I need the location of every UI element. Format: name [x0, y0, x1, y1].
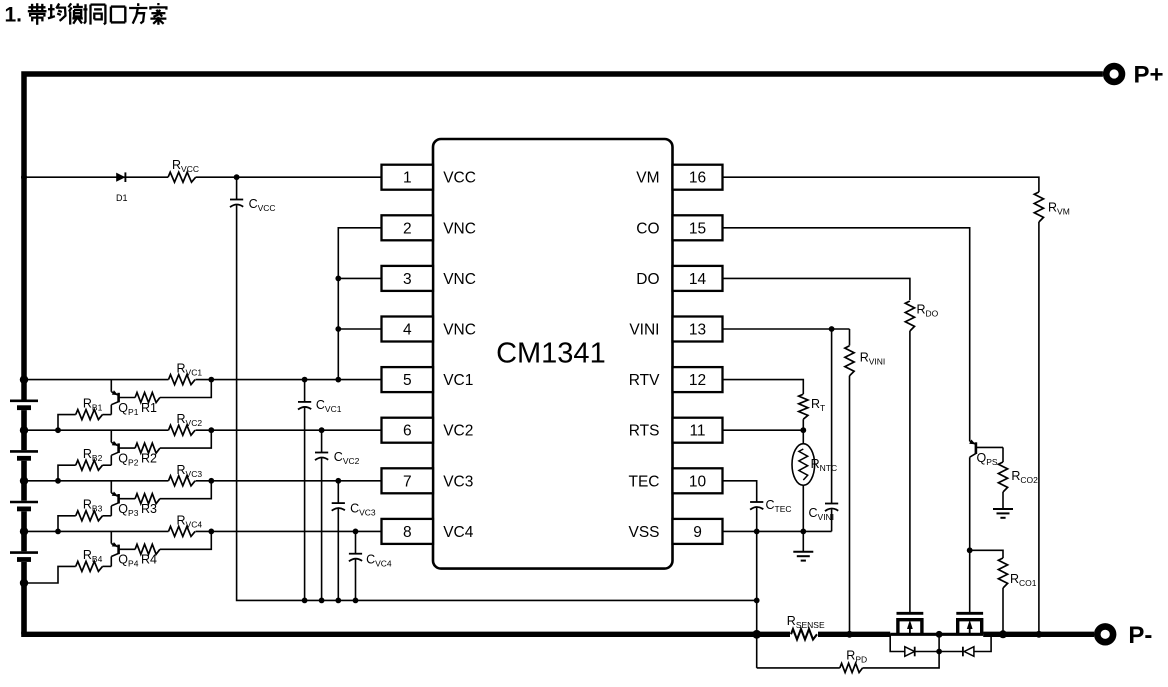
transistor Q1 discharge MOSFET: [897, 613, 924, 634]
label P+: [1134, 62, 1164, 89]
pin 7 box: [382, 468, 434, 493]
node RB2 tap junction: [55, 478, 61, 484]
wire pin 3 stub: [338, 277, 381, 279]
svg-text:7: 7: [403, 473, 412, 490]
pin 14 box: [673, 266, 723, 291]
wire battery rail segment below cell B1: [21, 410, 27, 450]
node CVC1 tap: [302, 377, 308, 383]
pin number 11: [689, 423, 705, 440]
transistor QP4: [111, 531, 135, 566]
resistor RPD: [840, 663, 863, 672]
wire CVC4 to ground bus: [355, 559, 357, 600]
pin number 2: [403, 220, 412, 237]
wire VSS down through bus to RPD: [756, 531, 758, 668]
wire RB1 to cell tap 2: [58, 415, 76, 431]
label RVC4: [177, 513, 203, 529]
wire pin9 VSS: [723, 530, 832, 532]
capacitor CVC1: [298, 402, 311, 410]
pin name VC4 (pin 8): [443, 524, 474, 541]
pin name VNC (pin 2): [443, 220, 476, 237]
pin 15 box: [673, 215, 723, 240]
pin number 9: [693, 524, 702, 541]
wire CVC4 top lead: [355, 531, 357, 553]
svg-text:P+: P+: [1134, 62, 1164, 89]
wire CVINI top lead: [831, 329, 833, 504]
wire RNTC top lead: [802, 430, 804, 444]
wire pin16 VM to RVM: [723, 177, 1039, 192]
ground under RNTC: [793, 552, 813, 561]
svg-text:12: 12: [689, 372, 706, 389]
transistor QP3: [111, 481, 135, 516]
resistor RVM: [1034, 192, 1043, 222]
wire CVC1 to ground bus: [304, 408, 306, 601]
node RNTC VSS junction: [800, 529, 806, 535]
label CVINI: [809, 506, 835, 522]
wire pin14 DO to RDO: [723, 278, 910, 300]
wire pin13 VINI: [723, 328, 850, 330]
wire QPS collector down to gate: [969, 457, 971, 613]
label RNTC: [811, 457, 838, 473]
resistor R2: [135, 443, 160, 453]
wire RVINI to P- rail: [849, 376, 851, 635]
svg-text:R4: R4: [141, 553, 157, 567]
svg-text:R3: R3: [141, 502, 157, 516]
svg-text:VCC: VCC: [443, 170, 476, 187]
transistor QPS: [969, 440, 1003, 458]
wire RT to RTS junction: [802, 419, 804, 430]
label RB1: [83, 396, 103, 412]
node RT RTS RNTC junction: [800, 427, 806, 433]
wire diode loop right rise: [974, 634, 991, 651]
pin number 10: [689, 473, 707, 490]
svg-text:15: 15: [689, 220, 706, 237]
wire cell tap 4 to pin 8: [24, 530, 382, 532]
svg-text:P-: P-: [1128, 622, 1152, 649]
battery cell B1 plates: [10, 401, 38, 408]
svg-text:VNC: VNC: [443, 322, 476, 339]
svg-text:6: 6: [403, 423, 412, 440]
resistor RT: [799, 394, 808, 419]
wire CVCC to ground bus: [237, 205, 757, 600]
capacitor CVC3: [332, 503, 345, 511]
pin 13 box: [673, 317, 723, 342]
op-amp U1 IC body CM1341: [433, 139, 673, 569]
node CVC2 tap: [319, 427, 325, 433]
wire diode loop left drop: [890, 634, 905, 651]
label RSENSE: [787, 614, 825, 630]
wire QP1 collector to RB1: [103, 414, 112, 416]
node RVC4 output junction: [208, 529, 214, 535]
node CVC1 bus junction: [302, 598, 308, 604]
node RCO1 rail junction: [999, 630, 1007, 638]
node CVC2 bus junction: [319, 598, 325, 604]
label RB4: [83, 548, 103, 564]
node battery tap 3: [20, 477, 28, 485]
capacitor CVINI: [825, 504, 838, 512]
wire RCO1 branch: [970, 550, 1003, 558]
svg-text:VC1: VC1: [443, 372, 473, 389]
wire cell tap 3 to pin 7: [24, 480, 382, 482]
wire pin12 RTV to RT: [723, 380, 804, 394]
pin number 13: [689, 322, 706, 339]
label CVC1: [316, 398, 342, 414]
label QP1: [118, 401, 138, 417]
wire RB3 to cell tap 4: [58, 516, 76, 532]
label R2: [141, 451, 157, 465]
resistor RVCC: [168, 171, 196, 183]
wire VNC pins 2-4 tie line: [338, 228, 381, 380]
pin name VNC (pin 4): [443, 322, 476, 339]
wire CTEC bottom lead: [756, 508, 758, 532]
wire CVC3 top lead: [337, 481, 339, 503]
pin number 14: [689, 271, 707, 288]
label QPS: [977, 451, 998, 467]
wire R3 to RVC3 junction: [160, 481, 211, 499]
wire cell tap 2 to pin 6: [24, 429, 382, 431]
diode D1: [116, 172, 125, 182]
resistor R1: [135, 393, 160, 403]
wire battery rail segment below cell B2: [21, 461, 27, 501]
wire QP4 collector to RB4: [103, 565, 112, 567]
transistor QP2: [111, 430, 135, 465]
label RVCC: [172, 158, 199, 174]
label RT: [811, 397, 825, 413]
label RVC2: [177, 412, 203, 428]
node battery tap 4: [20, 527, 28, 535]
pin 4 box: [382, 317, 434, 342]
pin name VINI (pin 13): [629, 322, 659, 339]
pin 6 box: [382, 418, 434, 443]
resistor RB1: [76, 410, 103, 420]
svg-text:1: 1: [403, 170, 412, 187]
wire P- bottom rail under MOSFETs: [890, 633, 983, 636]
svg-text:RTV: RTV: [629, 372, 660, 389]
resistor RVC1: [169, 374, 196, 386]
wire QP3 collector to RB3: [103, 515, 112, 517]
transistor QP1: [111, 380, 135, 415]
label RCO2: [1011, 469, 1038, 485]
svg-text:11: 11: [689, 423, 705, 440]
pin 12 box: [673, 367, 723, 392]
svg-text:VSS: VSS: [628, 524, 659, 541]
diode D3 body diode: [963, 647, 974, 657]
svg-text:VC3: VC3: [443, 473, 473, 490]
label RPD: [846, 649, 867, 665]
P- terminal: [1097, 626, 1113, 642]
svg-text:VC4: VC4: [443, 524, 474, 541]
label RVC3: [177, 463, 203, 479]
svg-text:2: 2: [403, 220, 412, 237]
svg-text:D1: D1: [116, 193, 128, 203]
pin name TEC (pin 10): [629, 473, 660, 490]
capacitor CVCC: [230, 200, 243, 208]
wire P+ top rail and left battery rail (thick): [24, 74, 1103, 400]
wire RB4 to battery bottom: [24, 566, 76, 583]
wire R4 to RVC4 junction: [160, 531, 211, 549]
pin number 5: [403, 372, 412, 389]
node QPS collector / RCO1 junction: [967, 547, 973, 553]
resistor RB3: [76, 511, 103, 521]
node battery tap 2: [20, 426, 28, 434]
wire CVC2 to ground bus: [321, 458, 323, 600]
label D1: [116, 193, 128, 203]
wire RPD to diode midpoint: [863, 652, 940, 668]
wire P- bottom rail left section (thick): [21, 632, 791, 637]
node RVC1 output junction: [208, 377, 214, 383]
node CVC4 tap: [353, 529, 359, 535]
node VNC to VC1 junction: [335, 377, 341, 383]
capacitor CVC4: [349, 554, 362, 562]
pin 5 box: [382, 367, 434, 392]
pin number 8: [403, 524, 412, 541]
svg-text:14: 14: [689, 271, 707, 288]
wire VCC from rail to pin 1: [24, 176, 382, 178]
svg-text:TEC: TEC: [629, 473, 660, 490]
label RDO: [917, 303, 939, 319]
label CVC4: [366, 553, 392, 569]
label RB3: [83, 498, 103, 514]
wire cell tap 1 to pin 5: [24, 379, 382, 381]
svg-text:VNC: VNC: [443, 220, 476, 237]
label RVM: [1048, 201, 1070, 217]
wire battery rail segment below cell B3: [21, 511, 27, 551]
wire R2 to RVC2 junction: [160, 430, 211, 448]
pin name VC2 (pin 6): [443, 423, 473, 440]
node MOSFET midpoint on rail: [936, 631, 943, 638]
resistor RVC4: [169, 525, 196, 537]
label QP4: [118, 553, 138, 569]
svg-text:10: 10: [689, 473, 707, 490]
svg-text:R1: R1: [141, 401, 157, 415]
pin 10 box: [673, 468, 723, 493]
pin name VC3 (pin 7): [443, 473, 473, 490]
wire RB2 to cell tap 3: [58, 465, 76, 481]
label CM1341: [496, 338, 606, 370]
pin name VC1 (pin 5): [443, 372, 473, 389]
svg-text:9: 9: [693, 524, 702, 541]
pin 16 box: [673, 165, 723, 190]
transistor Q2 charge MOSFET: [956, 613, 983, 634]
wire RDO down to gate: [909, 331, 911, 613]
label RVINI: [860, 351, 886, 367]
pin 8 box: [382, 519, 434, 544]
wire RNTC bottom lead: [802, 485, 804, 531]
P+ terminal: [1106, 66, 1122, 82]
wire pin15 CO to QPS emitter: [723, 228, 970, 441]
resistor RCO1: [998, 558, 1007, 588]
node VCC tap on rail: [21, 174, 27, 180]
svg-text:8: 8: [403, 524, 412, 541]
wire CVC3 to ground bus: [337, 509, 339, 601]
svg-text:VINI: VINI: [629, 322, 659, 339]
pin name VCC (pin 1): [443, 170, 476, 187]
diode D2 body diode: [905, 647, 915, 657]
node CVC3 bus junction: [335, 598, 341, 604]
node RVINI rail junction: [846, 631, 853, 638]
pin 11 box: [673, 418, 723, 443]
pin 3 box: [382, 266, 434, 291]
wire RNTC ground stem: [802, 531, 804, 551]
svg-text:R2: R2: [141, 451, 157, 465]
wire P- bottom rail right section (thick): [983, 632, 1094, 637]
node VCC filter junction: [234, 174, 240, 180]
label R4: [141, 553, 157, 567]
resistor RB2: [76, 460, 103, 470]
title text: 1. with-balancing same-port solution: [5, 3, 167, 27]
node VNC pin4 junction: [335, 326, 341, 332]
wire diode midpoint segment: [915, 651, 963, 653]
svg-text:3: 3: [403, 271, 412, 288]
wire pin10 TEC to CTEC: [723, 481, 757, 502]
label RCO1: [1010, 572, 1037, 588]
pin name DO (pin 14): [636, 271, 659, 288]
wire RVINI lead: [849, 329, 851, 346]
resistor RVC2: [169, 424, 196, 436]
node VSS rail junction: [752, 630, 761, 639]
wire P- bottom rail mid section: [817, 632, 890, 637]
pin 1 box: [382, 165, 434, 190]
pin name VNC (pin 3): [443, 271, 476, 288]
label QP2: [118, 451, 138, 467]
node RVC3 output junction: [208, 478, 214, 484]
battery cell B2 plates: [10, 451, 38, 458]
pin number 4: [403, 322, 412, 339]
svg-text:VC2: VC2: [443, 423, 473, 440]
label CVC2: [334, 450, 360, 466]
svg-text:5: 5: [403, 372, 412, 389]
pin number 6: [403, 423, 412, 440]
label R3: [141, 502, 157, 516]
node battery top (VC1 wire): [20, 375, 28, 383]
wire RCO2 to ground: [1002, 492, 1004, 509]
pin number 1: [403, 170, 412, 187]
wire CVC2 top lead: [321, 430, 323, 452]
pin 2 box: [382, 215, 434, 240]
resistor RB4: [76, 561, 103, 571]
label QP3: [118, 502, 138, 518]
thermistor RNTC: [792, 444, 815, 486]
svg-text:1.: 1.: [5, 4, 23, 27]
label CVCC: [249, 197, 276, 213]
label P-: [1128, 622, 1152, 649]
pin name RTS (pin 11): [629, 423, 660, 440]
node CVC4 bus junction: [353, 598, 359, 604]
pin name CO (pin 15): [636, 220, 659, 237]
wire RVM to P- rail: [1038, 222, 1040, 634]
node RVC2 output junction: [208, 427, 214, 433]
label RVC1: [177, 362, 203, 378]
resistor R4: [135, 544, 160, 554]
wire pin11 RTS: [723, 429, 804, 431]
pin name RTV (pin 12): [629, 372, 660, 389]
pin number 3: [403, 271, 412, 288]
label CVC3: [350, 501, 376, 517]
wire RCO1 to P- rail: [1002, 588, 1004, 634]
pin 9 box: [673, 519, 723, 544]
label RB2: [83, 447, 103, 463]
wire RPD left segment: [757, 667, 840, 669]
pin number 15: [689, 220, 706, 237]
pin name VSS (pin 9): [628, 524, 659, 541]
svg-text:RTS: RTS: [629, 423, 660, 440]
wire CVCC top lead: [236, 177, 238, 199]
resistor RDO: [905, 301, 914, 331]
resistor RCO2 lead: [1002, 447, 1004, 462]
svg-text:VNC: VNC: [443, 271, 476, 288]
wire CVC1 top lead: [304, 380, 306, 402]
wire QP2 collector to RB2: [103, 464, 112, 466]
node RVM rail junction: [1036, 631, 1043, 638]
svg-text:16: 16: [689, 170, 706, 187]
label CTEC: [766, 498, 792, 514]
node VINI junction: [829, 326, 835, 332]
resistor RVC3: [169, 475, 196, 487]
svg-text:CM1341: CM1341: [496, 338, 606, 370]
resistor RVINI: [845, 346, 854, 376]
capacitor CVC2: [315, 453, 328, 461]
label R1: [141, 401, 157, 415]
wire pin 4 stub: [338, 328, 381, 330]
resistor RSENSE: [790, 628, 818, 640]
pin number 12: [689, 372, 706, 389]
svg-text:DO: DO: [636, 271, 659, 288]
resistor RCO2: [998, 462, 1007, 492]
pin name VM (pin 16): [636, 170, 659, 187]
battery cell B3 plates: [10, 502, 38, 509]
wire CVINI bottom lead: [831, 509, 833, 531]
battery cell B4 plates: [10, 553, 38, 560]
pin number 7: [403, 473, 412, 490]
wire MOSFET midpoint to diode midpoint: [938, 634, 940, 651]
node RB3 tap junction: [55, 529, 61, 535]
capacitor CTEC: [750, 502, 763, 510]
svg-text:4: 4: [403, 322, 412, 339]
node VSS bus junction: [754, 598, 760, 604]
svg-text:CO: CO: [636, 220, 659, 237]
node VNC pin3 junction: [335, 276, 341, 282]
pin number 16: [689, 170, 706, 187]
node diode midpoint: [936, 649, 942, 655]
node VSS CTEC junction: [754, 529, 760, 535]
node RB1 tap junction: [55, 427, 61, 433]
node CVC3 tap: [335, 478, 341, 484]
svg-text:VM: VM: [636, 170, 659, 187]
node battery bottom: [20, 579, 28, 587]
wire battery rail segment below cell B4: [21, 562, 27, 634]
svg-text:13: 13: [689, 322, 706, 339]
resistor R3: [135, 494, 160, 504]
wire R1 to RVC1 junction: [160, 380, 211, 398]
ground under RCO2: [993, 509, 1013, 518]
